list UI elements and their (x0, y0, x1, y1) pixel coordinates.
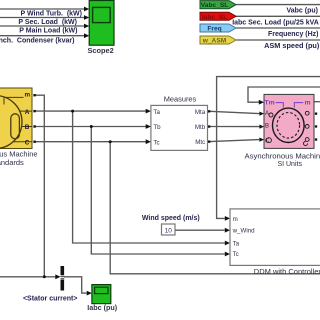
svg-text:A: A (265, 111, 269, 117)
svg-text:Mta: Mta (195, 109, 206, 116)
svg-text:SI Units: SI Units (277, 161, 302, 168)
svg-text:Wind speed (m/s): Wind speed (m/s) (142, 215, 200, 222)
svg-text:Synch. Condenser (kvar): Synch. Condenser (kvar) (0, 38, 75, 45)
svg-text:w_ASM: w_ASM (202, 38, 227, 45)
svg-text:pu Standards: pu Standards (0, 158, 24, 167)
svg-text:Freq: Freq (207, 26, 221, 33)
svg-text:Frequency (Hz): Frequency (Hz) (268, 31, 319, 38)
svg-text:Measures: Measures (164, 94, 197, 103)
svg-text:Scope2: Scope2 (87, 46, 113, 55)
svg-text:Mtb: Mtb (195, 124, 206, 131)
svg-text:Tc: Tc (153, 139, 159, 146)
svg-text:Ta: Ta (233, 241, 240, 248)
svg-text:Iabc (pu): Iabc (pu) (87, 303, 118, 312)
svg-text:P Main Load (kW): P Main Load (kW) (19, 27, 77, 34)
svg-text:ASM speed (pu): ASM speed (pu) (264, 41, 320, 50)
svg-text:C: C (25, 139, 30, 146)
svg-text:DDM with Controllers: DDM with Controllers (254, 267, 320, 276)
svg-text:m: m (233, 216, 238, 223)
svg-text:w_Wind: w_Wind (232, 228, 256, 235)
svg-text:Iabc Sec. Load (pu/25 kVA: Iabc Sec. Load (pu/25 kVA (232, 19, 319, 26)
svg-text:B: B (265, 123, 269, 129)
svg-text:P Sec. Load (kW): P Sec. Load (kW) (18, 19, 77, 26)
svg-text:B: B (25, 124, 30, 131)
svg-text:Vabc_SL: Vabc_SL (201, 2, 229, 9)
svg-text:m: m (25, 92, 31, 99)
svg-text:P Wind Turb. (kW): P Wind Turb. (kW) (20, 10, 82, 17)
svg-text:<Stator current>: <Stator current> (23, 296, 77, 303)
svg-text:Iabc_SL: Iabc_SL (202, 14, 227, 21)
svg-text:Vabc (pu): Vabc (pu) (286, 8, 318, 15)
svg-text:Mtc: Mtc (195, 139, 205, 146)
svg-text:Tm: Tm (265, 99, 275, 106)
svg-text:C: C (265, 139, 270, 145)
svg-text:m: m (305, 99, 311, 106)
svg-text:Tb: Tb (153, 124, 161, 131)
svg-text:A: A (25, 109, 30, 116)
svg-text:Ta: Ta (153, 109, 160, 116)
svg-text:Asynchronous Machine: Asynchronous Machine (245, 152, 320, 161)
svg-text:10: 10 (165, 228, 173, 235)
svg-text:Tc: Tc (233, 251, 239, 258)
